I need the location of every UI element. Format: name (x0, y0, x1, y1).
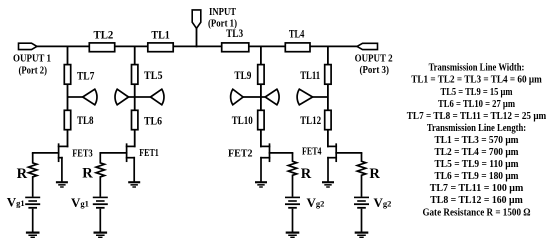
transmission line TL11 (325, 65, 331, 85)
svg-text:TL4: TL4 (289, 29, 305, 41)
wire column 2 vertical (134, 46, 136, 146)
svg-text:TL5: TL5 (144, 70, 163, 82)
radial stub column 4 (297, 89, 328, 105)
transmission line TL10 (258, 110, 264, 129)
svg-text:FET4: FET4 (302, 147, 322, 158)
battery Vg2 chain 3 (285, 197, 300, 209)
svg-text:INPUT: INPUT (209, 6, 237, 18)
svg-text:R: R (82, 166, 93, 182)
label OUPUT 2 (Port 3) (355, 52, 393, 76)
svg-text:FET3: FET3 (72, 149, 93, 160)
wire chain 3 battery to ground (292, 209, 294, 232)
ground FET3 source (56, 181, 68, 188)
ground FET4 source (322, 181, 334, 188)
svg-text:R: R (369, 166, 380, 182)
transmission line TL12 (325, 110, 331, 129)
label INPUT (Port 1) (208, 6, 237, 30)
wire column 1 vertical (67, 46, 69, 146)
transmission line TL9 (258, 65, 264, 85)
svg-text:TL1: TL1 (151, 30, 170, 42)
battery Vg1 chain 1 (25, 197, 40, 209)
svg-text:TL6 = TL9 = 180 μm: TL6 = TL9 = 180 μm (435, 171, 519, 182)
svg-text:TL2: TL2 (94, 30, 114, 42)
transistor FET2 (261, 144, 293, 181)
ground chain 2 (94, 232, 108, 239)
svg-text:TL11: TL11 (300, 70, 320, 82)
label OUPUT 1 (Port 2) (13, 53, 51, 77)
svg-text:TL2 = TL4 = 700 μm: TL2 = TL4 = 700 μm (435, 147, 519, 158)
svg-text:TL7: TL7 (77, 70, 95, 82)
radial stub column 1 (68, 89, 97, 105)
svg-text:TL9: TL9 (234, 70, 251, 82)
port P1 input symbol (192, 10, 201, 28)
svg-text:TL12: TL12 (300, 115, 321, 127)
wire chain 1 battery to ground (32, 209, 34, 232)
svg-text:R: R (17, 166, 28, 182)
svg-text:R: R (301, 166, 312, 182)
wire chain 2 battery to ground (99, 209, 101, 232)
transistor FET1 (100, 144, 134, 181)
svg-text:TL6: TL6 (144, 115, 162, 127)
port P2 output 1 symbol (19, 43, 37, 49)
wire column 3 vertical (260, 46, 262, 146)
transistor FET3 (33, 144, 68, 181)
transmission line TL7 (64, 65, 70, 85)
svg-text:TL1 = TL3 = 570 μm: TL1 = TL3 = 570 μm (435, 135, 519, 146)
transmission line TL5 (132, 65, 138, 85)
wire main bus (37, 45, 357, 47)
ground FET2 source (255, 181, 267, 188)
svg-text:Gate Resistance R = 1500 Ω: Gate Resistance R = 1500 Ω (422, 207, 530, 218)
transmission line TL3 (222, 43, 249, 52)
svg-text:Transmission Line Length:: Transmission Line Length: (427, 123, 526, 134)
svg-text:OUPUT 1: OUPUT 1 (13, 53, 51, 65)
svg-text:TL5 = TL9 = 15 μm: TL5 = TL9 = 15 μm (441, 87, 513, 98)
transmission line TL6 (132, 110, 138, 129)
svg-text:FET2: FET2 (228, 149, 253, 160)
svg-text:TL7 = TL11 = 100 μm: TL7 = TL11 = 100 μm (430, 183, 524, 194)
resistor R chain 2 (96, 153, 104, 197)
port P3 output 2 symbol (357, 43, 378, 49)
wire column 4 vertical (327, 46, 329, 146)
svg-text:TL1 = TL2 = TL3 = TL4 = 60 μm: TL1 = TL2 = TL3 = TL4 = 60 μm (411, 75, 542, 86)
note transmission line parameters text block (407, 63, 547, 219)
butterfly stub column 3 (231, 89, 279, 105)
svg-text:TL8 = TL12 = 160 μm: TL8 = TL12 = 160 μm (430, 195, 523, 206)
wire input drop (196, 28, 198, 46)
svg-text:TL3: TL3 (226, 28, 243, 40)
svg-text:TL5 = TL9 = 110 μm: TL5 = TL9 = 110 μm (435, 159, 519, 170)
svg-text:OUPUT 2: OUPUT 2 (355, 52, 393, 64)
svg-text:TL6 = TL10 = 27 μm: TL6 = TL10 = 27 μm (438, 99, 515, 110)
transmission line TL4 (285, 43, 310, 52)
ground chain 3 (286, 232, 300, 239)
svg-text:FET1: FET1 (139, 148, 159, 159)
resistor R chain 4 (357, 153, 365, 197)
resistor R chain 3 (288, 153, 296, 197)
battery Vg1 chain 2 (93, 197, 108, 209)
ground chain 1 (26, 232, 40, 239)
resistor R chain 1 (29, 153, 37, 197)
butterfly stub column 2 (115, 89, 164, 105)
transmission line TL8 (64, 110, 70, 129)
transmission line TL1 (148, 43, 173, 52)
svg-text:TL10: TL10 (232, 115, 253, 127)
transistor FET4 (328, 144, 362, 181)
svg-text:TL8: TL8 (77, 115, 94, 127)
transmission line TL2 (89, 43, 114, 52)
wire chain 4 battery to ground (361, 209, 363, 232)
svg-text:(Port 2): (Port 2) (19, 65, 48, 77)
ground FET1 source (128, 181, 140, 188)
svg-text:TL7 = TL8 = TL11 = TL12 = 25 μ: TL7 = TL8 = TL11 = TL12 = 25 μm (407, 111, 547, 122)
svg-text:(Port 3): (Port 3) (360, 64, 390, 76)
ground chain 4 (355, 232, 369, 239)
svg-text:Transmission Line Width:: Transmission Line Width: (429, 63, 525, 74)
battery Vg2 chain 4 (354, 197, 369, 209)
